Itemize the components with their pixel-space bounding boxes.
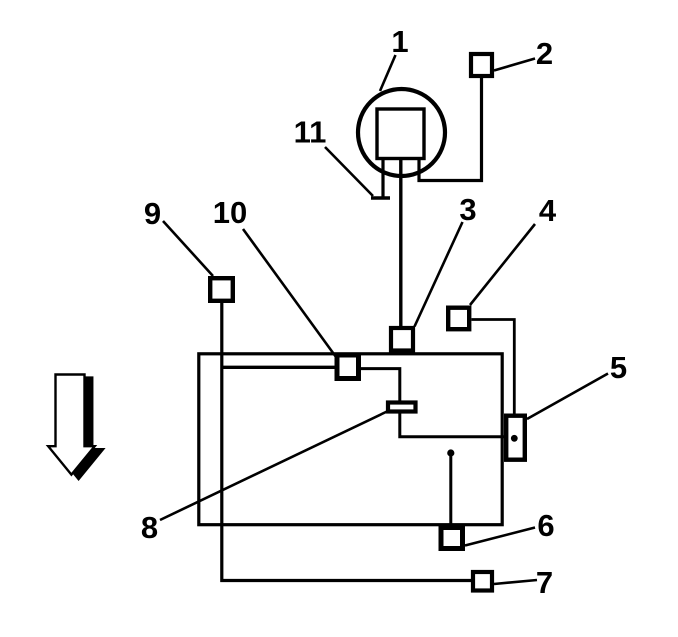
leader line 1 — [380, 55, 396, 91]
component 6 square — [441, 528, 463, 549]
leader line 3 — [415, 222, 463, 327]
wire left leg under component 1 — [381, 160, 384, 197]
leader line 4 — [470, 224, 535, 305]
svg-text:11: 11 — [294, 115, 327, 150]
leader line 6 — [465, 528, 535, 546]
wire from component 9 down and across to component 7 — [222, 303, 471, 581]
wire from component 10 to component 5 dot — [360, 369, 512, 437]
svg-text:5: 5 — [610, 350, 627, 385]
component 8 inline valve — [388, 403, 416, 412]
leader line 8 — [160, 412, 387, 521]
component 3 square — [391, 328, 413, 351]
junction dot inside component 5 — [511, 435, 518, 442]
svg-text:6: 6 — [537, 508, 554, 543]
component 10 square — [337, 355, 359, 379]
svg-text:2: 2 — [536, 36, 553, 71]
leader line 2 — [494, 59, 535, 71]
svg-text:7: 7 — [536, 565, 553, 600]
leader line 10 — [243, 229, 336, 357]
wire from right leg of component 1 to component 2 — [419, 78, 482, 181]
component 4 square — [448, 308, 469, 330]
svg-text:1: 1 — [391, 24, 408, 59]
wire center leg from component 1 down to component 3 — [399, 160, 402, 328]
svg-text:9: 9 — [144, 196, 161, 231]
wire from component 4 to component 5 — [472, 320, 515, 415]
leader line 5 — [527, 374, 608, 420]
component 1 circle — [358, 89, 445, 176]
component 7 square — [473, 572, 492, 591]
leader tick 11 — [371, 196, 390, 200]
component 9 square — [210, 278, 233, 301]
wire from junction node down to component 6 — [449, 453, 452, 526]
block arrow direction indicator (face) — [48, 375, 94, 475]
component 1 inner square — [377, 109, 424, 159]
leader line 7 — [494, 580, 537, 584]
block arrow direction indicator (shadow) — [55, 378, 102, 478]
svg-text:10: 10 — [213, 195, 247, 230]
component 2 square — [471, 54, 492, 76]
svg-text:4: 4 — [539, 193, 557, 228]
leader line 9 — [163, 221, 213, 276]
junction node dot — [447, 449, 454, 456]
svg-text:3: 3 — [459, 192, 476, 227]
component 5 rectangle — [506, 416, 525, 460]
main engine box — [199, 354, 502, 525]
svg-text:8: 8 — [141, 510, 158, 545]
leader line 11 — [325, 147, 373, 196]
wire from 9-line to component 10 — [222, 366, 336, 369]
